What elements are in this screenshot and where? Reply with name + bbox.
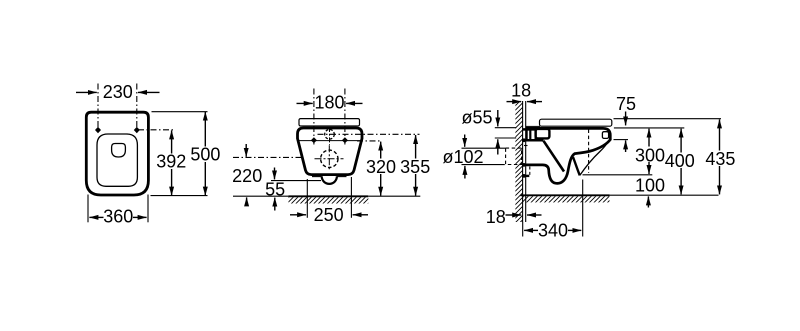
dimension 435 <box>704 119 736 194</box>
weir notch <box>573 157 580 175</box>
fixing hole left marker <box>311 137 317 143</box>
rim slab <box>299 119 360 126</box>
wall hatching <box>515 101 523 222</box>
dimension 355 <box>400 135 432 196</box>
floor line thin right <box>610 194 719 196</box>
svg-text:180: 180 <box>314 92 344 112</box>
dimension 250 <box>290 205 368 225</box>
dimension 220 <box>232 144 262 206</box>
svg-text:500: 500 <box>190 145 220 165</box>
dimension ø102 <box>443 135 506 179</box>
svg-text:ø102: ø102 <box>443 147 484 167</box>
bracket divider 2 <box>529 129 531 140</box>
outlet semicircle <box>322 176 337 184</box>
extension line wall for 340 <box>522 222 524 237</box>
outlet circle <box>321 150 338 167</box>
wall line left <box>522 101 524 222</box>
floor line left thin <box>233 195 289 197</box>
hidden drain pipe dashed box <box>506 148 522 164</box>
centerline right vertical <box>344 89 346 145</box>
bowl back diagonal <box>544 141 565 172</box>
extension line left for 360 <box>87 195 89 223</box>
svg-text:435: 435 <box>705 149 735 169</box>
dimension 320 <box>365 142 397 196</box>
bracket divider 3 <box>534 129 536 140</box>
outlet crosshair horizontal <box>315 158 344 160</box>
svg-text:ø55: ø55 <box>462 107 493 127</box>
centerline left vertical <box>97 84 99 131</box>
inlet connector box <box>536 129 550 139</box>
outlet crosshair vertical <box>328 145 330 171</box>
extension line seat top for 435 <box>614 118 722 120</box>
dimension 500 <box>190 112 222 196</box>
bowl inner surface <box>580 141 609 176</box>
dimension 230 <box>76 82 160 102</box>
outlet centerline left <box>233 156 302 158</box>
bracket bottom line <box>523 139 544 142</box>
seat underside line <box>526 125 540 127</box>
extension line right for 360 <box>147 195 149 223</box>
dimension 75 <box>614 94 637 152</box>
centerline horizontal <box>138 129 176 131</box>
svg-text:355: 355 <box>400 157 430 177</box>
wall fixing dot middle <box>522 163 526 167</box>
dimension 100 <box>635 175 665 207</box>
bracket top line <box>523 128 537 131</box>
fixing centerline to 320 <box>357 140 382 142</box>
svg-text:100: 100 <box>635 175 665 195</box>
svg-text:230: 230 <box>103 82 133 102</box>
svg-text:400: 400 <box>665 151 695 171</box>
inlet centerline horizontal to 355 <box>318 133 420 135</box>
bottom slot left line <box>312 176 322 178</box>
dimension 55 <box>265 168 285 211</box>
dimension 400 <box>665 129 697 195</box>
extension line body top for 300 and 400 <box>614 127 684 129</box>
svg-text:55: 55 <box>265 179 285 199</box>
body joint line <box>298 140 361 142</box>
seat slab <box>540 119 612 126</box>
wall stub <box>523 175 530 177</box>
svg-text:18: 18 <box>486 207 506 227</box>
wall line right <box>525 101 527 222</box>
dimension 340 <box>524 221 581 241</box>
body and trap outline <box>526 128 611 183</box>
svg-text:250: 250 <box>314 205 344 225</box>
extension line top for 500 <box>152 111 208 113</box>
dimension 300 <box>634 129 666 174</box>
hidden edge dashed <box>588 130 590 174</box>
seat bumper square <box>602 132 608 139</box>
flush hole <box>112 144 126 158</box>
dimension 392 <box>156 130 188 195</box>
svg-text:320: 320 <box>366 157 396 177</box>
wall fixing dot upper <box>522 138 526 142</box>
fixing hole right marker <box>134 127 140 133</box>
floor hatching <box>289 197 369 203</box>
svg-text:220: 220 <box>232 166 262 186</box>
pan outer outline <box>86 112 148 195</box>
floor line thick <box>521 194 610 196</box>
inlet circle <box>325 130 335 140</box>
outlet level line for 55 <box>271 180 321 182</box>
svg-text:75: 75 <box>616 94 636 114</box>
dimension 18 top <box>507 81 543 102</box>
body outline <box>298 128 363 175</box>
svg-text:340: 340 <box>538 221 568 241</box>
extension line bottom for 500 <box>151 195 208 197</box>
inlet vertical crosshair <box>329 127 331 145</box>
floor line right thin <box>368 195 420 197</box>
extension line left for 250 <box>306 179 308 218</box>
svg-text:18: 18 <box>511 81 531 101</box>
floor line thick <box>289 195 369 197</box>
svg-text:360: 360 <box>103 206 133 226</box>
wall fixing dot lower <box>522 174 526 178</box>
fixing hole left marker <box>95 127 101 133</box>
hidden pipe dashed vertical <box>529 167 531 176</box>
centerline right vertical <box>136 84 138 131</box>
extension line front for 340 <box>582 180 584 237</box>
floor hatching <box>523 196 610 202</box>
centerline left vertical <box>313 89 315 145</box>
svg-text:300: 300 <box>635 145 665 165</box>
hidden dash segment <box>524 145 530 147</box>
svg-text:392: 392 <box>156 152 186 172</box>
dimension 180 <box>297 92 363 112</box>
bracket divider 1 <box>525 129 527 140</box>
dimension 18 bottom <box>486 207 542 227</box>
bowl inner outline <box>97 134 137 186</box>
dimension 360 <box>89 206 146 226</box>
bottom slot right line <box>337 176 347 178</box>
dimension ø55 <box>462 107 517 154</box>
extension line outlet level for 100 <box>583 174 653 176</box>
extension line right for 250 <box>350 177 352 218</box>
fixing hole right marker <box>342 137 348 143</box>
